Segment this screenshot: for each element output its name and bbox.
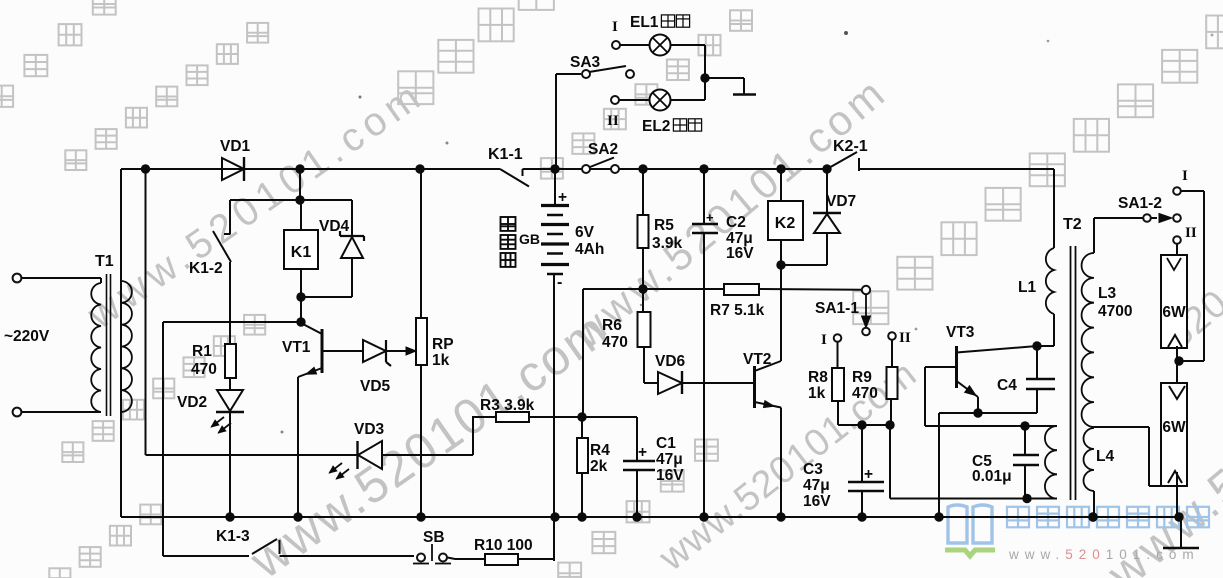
svg-text:VD6: VD6	[655, 353, 686, 370]
svg-text:K1: K1	[291, 244, 312, 261]
svg-text:4700: 4700	[1098, 303, 1132, 320]
svg-text:K1-2: K1-2	[189, 260, 223, 277]
svg-text:R7 5.1k: R7 5.1k	[710, 302, 765, 319]
svg-text:SA3: SA3	[570, 54, 601, 71]
svg-text:K1-3: K1-3	[216, 528, 250, 545]
svg-text:K1-1: K1-1	[488, 146, 523, 163]
svg-text:~220V: ~220V	[4, 328, 50, 345]
svg-text:470: 470	[852, 385, 878, 402]
svg-text:VD4: VD4	[319, 218, 350, 235]
svg-text:C1: C1	[656, 435, 676, 452]
svg-text:VT1: VT1	[282, 339, 311, 356]
svg-text:II: II	[899, 330, 911, 346]
svg-text:0.01μ: 0.01μ	[972, 468, 1012, 485]
svg-text:VD3: VD3	[354, 421, 385, 438]
svg-text:VT3: VT3	[946, 324, 975, 341]
svg-text:VD2: VD2	[177, 394, 207, 411]
svg-text:II: II	[607, 113, 619, 129]
svg-text:47μ: 47μ	[803, 477, 830, 494]
svg-text:T1: T1	[95, 253, 114, 270]
svg-text:L1: L1	[1018, 279, 1036, 296]
svg-text:4Ah: 4Ah	[575, 241, 604, 258]
svg-text:VD7: VD7	[826, 193, 856, 210]
svg-text:SA1-1: SA1-1	[815, 300, 859, 317]
svg-text:VD1: VD1	[220, 138, 251, 155]
svg-text:+: +	[706, 210, 714, 225]
svg-text:470: 470	[191, 361, 217, 378]
svg-text:SA2: SA2	[588, 141, 618, 158]
svg-text:SA1-2: SA1-2	[1118, 195, 1162, 212]
svg-text:R8: R8	[808, 369, 828, 386]
svg-text:L3: L3	[1098, 285, 1116, 302]
svg-text:R6: R6	[602, 317, 622, 334]
svg-text:RP: RP	[432, 336, 454, 353]
svg-text:SB: SB	[423, 529, 445, 546]
svg-text:-: -	[557, 274, 562, 291]
svg-text:C4: C4	[997, 377, 1017, 394]
svg-text:16V: 16V	[803, 493, 831, 510]
svg-text:C3: C3	[803, 461, 823, 478]
svg-text:T2: T2	[1063, 216, 1082, 233]
svg-text:+: +	[864, 466, 873, 483]
svg-text:3.9k: 3.9k	[652, 235, 683, 252]
svg-text:VD5: VD5	[360, 378, 391, 395]
svg-text:470: 470	[602, 334, 628, 351]
svg-text:I: I	[821, 332, 827, 348]
svg-text:R9: R9	[852, 369, 872, 386]
svg-text:EL1: EL1	[630, 14, 659, 31]
svg-text:L4: L4	[1096, 448, 1114, 465]
svg-text:K2-1: K2-1	[833, 138, 868, 155]
svg-text:6W: 6W	[1162, 304, 1186, 321]
svg-text:R5: R5	[654, 217, 674, 234]
svg-text:I: I	[1182, 168, 1188, 184]
svg-text:+: +	[638, 444, 647, 461]
svg-text:R10 100: R10 100	[474, 537, 533, 554]
svg-text:16V: 16V	[656, 467, 684, 484]
svg-text:1k: 1k	[432, 352, 450, 369]
svg-text:R3 3.9k: R3 3.9k	[480, 397, 535, 414]
svg-text:EL2: EL2	[642, 118, 670, 135]
svg-text:II: II	[1185, 225, 1197, 241]
svg-text:I: I	[612, 19, 618, 35]
svg-text:K2: K2	[775, 215, 796, 232]
svg-text:+: +	[558, 189, 567, 206]
svg-text:2k: 2k	[590, 458, 608, 475]
svg-text:6V: 6V	[575, 224, 595, 241]
svg-text:C2: C2	[726, 214, 746, 231]
svg-text:47μ: 47μ	[656, 451, 683, 468]
svg-text:6W: 6W	[1162, 419, 1186, 436]
svg-text:GB: GB	[519, 231, 540, 247]
svg-text:R4: R4	[590, 442, 610, 459]
svg-text:16V: 16V	[726, 245, 754, 262]
svg-text:1k: 1k	[808, 385, 826, 402]
svg-text:VT2: VT2	[743, 351, 771, 368]
svg-text:R1: R1	[192, 343, 212, 360]
